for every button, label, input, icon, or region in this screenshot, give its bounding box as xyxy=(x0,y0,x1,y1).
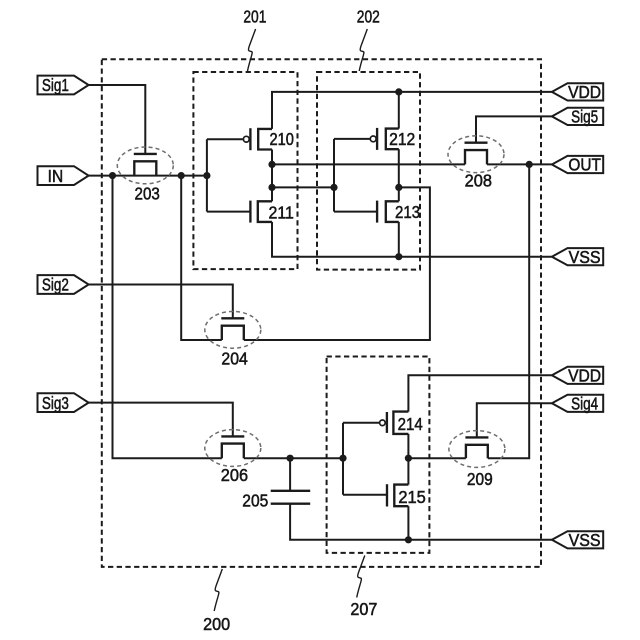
transistor 212 (PMOS) xyxy=(370,128,415,150)
wire 202 output column xyxy=(398,149,400,201)
node 201 output lower xyxy=(268,184,275,191)
wire OUT rail right segment xyxy=(487,163,552,165)
power port VSS (upper) xyxy=(552,247,603,267)
input port Sig2 xyxy=(38,275,89,295)
svg-text:VSS: VSS xyxy=(569,247,601,267)
leader line for 207 xyxy=(357,556,365,598)
outer dashed box 200 xyxy=(102,59,541,567)
wire 213 source to VSS xyxy=(398,222,400,257)
node output 207 xyxy=(405,455,412,462)
wire node C: output 207 to 209 xyxy=(408,457,465,459)
transistor 210 (PMOS) xyxy=(243,128,294,150)
svg-text:215: 215 xyxy=(398,487,426,507)
node B at capacitor xyxy=(287,455,294,462)
svg-text:OUT: OUT xyxy=(568,155,601,175)
svg-text:VDD: VDD xyxy=(568,82,601,102)
wire gate lead of 213 xyxy=(334,211,377,213)
wire gate lead of 211 xyxy=(207,211,251,213)
wire 207 output column xyxy=(407,434,409,485)
svg-text:Sig3: Sig3 xyxy=(42,393,69,413)
wire 215 source to VSS xyxy=(407,506,409,540)
transistor 208 xyxy=(448,136,504,191)
wire VSS rail (lower) xyxy=(290,504,552,540)
leader line for 201 xyxy=(248,29,256,71)
svg-text:201: 201 xyxy=(243,6,266,26)
svg-text:213: 213 xyxy=(395,202,420,222)
wire VDD rail (lower) xyxy=(408,375,552,411)
svg-text:214: 214 xyxy=(398,414,423,434)
input port Sig1 xyxy=(38,75,89,95)
wire gate lead of 215 xyxy=(343,494,387,496)
wire gate lead of 210 xyxy=(207,138,243,140)
transistor 211 (NMOS) xyxy=(250,201,294,223)
wire gate lead of 212 xyxy=(334,138,370,140)
svg-text:Sig2: Sig2 xyxy=(42,275,69,295)
inverter dashed box 202 xyxy=(317,72,420,270)
output port OUT xyxy=(552,155,603,175)
input port IN xyxy=(38,166,89,186)
wire gate lead of 214 xyxy=(343,422,380,424)
transistor 203 xyxy=(117,147,173,203)
leader line for 202 xyxy=(359,29,367,71)
svg-text:Sig4: Sig4 xyxy=(571,394,598,414)
transistor 213 (NMOS) xyxy=(377,201,420,223)
node output 202 xyxy=(395,184,402,191)
wire VSS rail (upper) xyxy=(272,222,552,257)
node on IN line at 181.2 xyxy=(178,172,185,179)
inverter dashed box 201 xyxy=(193,72,297,269)
wire Sig1 to gate of 203 xyxy=(89,85,146,154)
wire gate column inverter 207 xyxy=(342,423,344,495)
input port Sig3 xyxy=(38,393,89,413)
svg-text:212: 212 xyxy=(389,129,415,149)
svg-text:200: 200 xyxy=(203,614,230,634)
svg-text:204: 204 xyxy=(221,349,248,369)
wire node A: output 201 to input 202 xyxy=(272,186,334,188)
svg-text:205: 205 xyxy=(242,491,268,511)
svg-text:203: 203 xyxy=(135,183,160,203)
power port VSS (lower) xyxy=(552,530,603,550)
wire IN node down to 206 xyxy=(113,176,222,459)
node gate 202 xyxy=(330,184,337,191)
node OUT xyxy=(526,161,533,168)
wire 204 to IN node xyxy=(181,176,222,340)
wire output 202 feedback to 204 xyxy=(244,187,430,340)
svg-text:202: 202 xyxy=(357,6,380,26)
svg-text:207: 207 xyxy=(350,599,377,619)
svg-text:Sig1: Sig1 xyxy=(42,75,69,95)
inverter dashed box 207 xyxy=(327,357,430,553)
svg-text:206: 206 xyxy=(221,465,248,485)
wire OUT rail left segment xyxy=(272,163,465,165)
wire 212 source to VDD xyxy=(398,92,400,129)
svg-text:209: 209 xyxy=(467,469,493,489)
wire capacitor top to node B xyxy=(289,458,291,491)
wire Sig4 to gate of 209 xyxy=(477,403,552,437)
capacitor C205 xyxy=(242,491,310,511)
node VSS at 213 xyxy=(395,253,402,260)
transistor 209 xyxy=(449,431,505,489)
svg-text:210: 210 xyxy=(270,129,295,149)
wire gate column inverter 202 xyxy=(333,139,335,212)
power port VDD (upper) xyxy=(552,82,603,102)
wire IN to input of inverter 201 xyxy=(89,175,207,177)
input port Sig4 xyxy=(552,394,603,414)
input port Sig5 xyxy=(552,107,603,127)
wire Sig5 to gate of 208 xyxy=(476,116,552,142)
svg-text:VSS: VSS xyxy=(569,530,601,550)
transistor 215 (NMOS) xyxy=(387,484,426,507)
transistor 206 xyxy=(205,430,261,486)
wire node B: 206 to capacitor and input 207 xyxy=(244,457,343,459)
power port VDD (lower) xyxy=(552,366,603,386)
transistor 204 xyxy=(205,311,261,368)
leader line for 200 xyxy=(214,569,222,611)
wire gate column inverter 201 xyxy=(206,139,208,211)
wire 209 to OUT node xyxy=(488,164,529,458)
node VDD at 212 xyxy=(395,88,402,95)
node VSS at 215 xyxy=(405,536,412,543)
wire Sig2 to gate of 204 xyxy=(89,285,233,319)
node 201 output upper xyxy=(268,161,275,168)
svg-text:208: 208 xyxy=(465,170,492,190)
svg-text:VDD: VDD xyxy=(568,366,601,386)
wire 201 output column xyxy=(271,150,273,202)
svg-text:211: 211 xyxy=(269,203,294,223)
svg-text:IN: IN xyxy=(48,166,64,186)
wire VDD rail (upper) xyxy=(272,92,552,129)
node on IN line at 112.5 xyxy=(109,172,116,179)
wire Sig3 to gate of 206 xyxy=(89,403,233,437)
transistor 214 (PMOS) xyxy=(380,412,423,434)
node on IN line at gate column 201 xyxy=(203,172,210,179)
svg-text:Sig5: Sig5 xyxy=(571,107,598,127)
node B at gate 207 xyxy=(339,455,346,462)
